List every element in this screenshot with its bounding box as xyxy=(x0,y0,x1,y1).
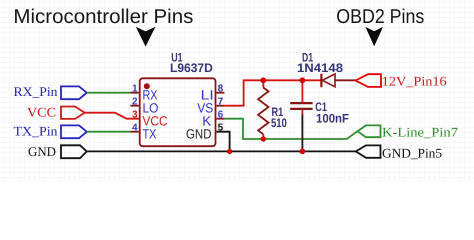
arrow marker left xyxy=(136,27,156,47)
svg-text:VCC: VCC xyxy=(27,104,56,119)
svg-text:100nF: 100nF xyxy=(316,112,349,126)
wire pin 6 to K line (green) xyxy=(224,119,357,139)
port GND_Pin5 xyxy=(356,145,443,160)
junction node pin5 GND xyxy=(227,149,232,154)
svg-text:510: 510 xyxy=(271,116,287,130)
port 12V_Pin16 xyxy=(356,74,448,89)
wire RX_Pin to pin 1 (green) xyxy=(87,92,131,94)
svg-text:Microcontroller Pins: Microcontroller Pins xyxy=(13,6,193,28)
pin 2 stub xyxy=(130,105,138,107)
svg-text:1N4148: 1N4148 xyxy=(297,61,343,75)
IC U1 L9637D xyxy=(140,78,216,146)
arrow marker right xyxy=(365,27,383,46)
svg-text:2: 2 xyxy=(132,96,138,107)
pin 8 stub xyxy=(216,92,224,94)
svg-text:OBD2 Pins: OBD2 Pins xyxy=(336,6,424,28)
pin 1 stub xyxy=(130,92,138,94)
pin 7 stub xyxy=(216,105,224,107)
svg-text:GND: GND xyxy=(28,144,56,159)
port VCC xyxy=(27,104,85,119)
capacitor C1 xyxy=(290,80,312,151)
svg-text:5: 5 xyxy=(218,122,224,133)
svg-text:7: 7 xyxy=(218,96,224,107)
svg-text:12V_Pin16: 12V_Pin16 xyxy=(382,74,447,89)
svg-text:8: 8 xyxy=(218,83,224,94)
resistor R1 xyxy=(258,80,268,139)
svg-text:3: 3 xyxy=(132,109,138,120)
wire pin 7 to 12V rail (red) xyxy=(224,80,320,105)
svg-text:RX_Pin: RX_Pin xyxy=(14,84,58,99)
svg-text:TX_Pin: TX_Pin xyxy=(14,123,58,138)
wire VCC to pin 3 (red) xyxy=(85,113,139,119)
wire GND bus (black) xyxy=(87,150,356,152)
svg-text:TX: TX xyxy=(143,126,157,141)
wire TX_Pin to pin 4 (green) xyxy=(87,131,131,133)
port RX_Pin xyxy=(14,84,87,99)
svg-text:GND_Pin5: GND_Pin5 xyxy=(382,145,442,160)
port TX_Pin xyxy=(14,123,87,138)
svg-text:1: 1 xyxy=(132,83,138,94)
diode D1 xyxy=(321,74,355,88)
port K-Line_Pin7 xyxy=(357,125,458,140)
svg-text:GND: GND xyxy=(186,126,212,141)
junction node R1 top xyxy=(260,77,266,83)
pin 6 stub xyxy=(216,118,224,120)
port GND left xyxy=(28,144,87,159)
junction node C1 bottom xyxy=(300,149,306,155)
svg-text:6: 6 xyxy=(218,109,224,120)
junction node R1 bottom xyxy=(261,136,266,141)
junction node C1 top xyxy=(300,77,306,83)
svg-text:L9637D: L9637D xyxy=(170,61,213,75)
pin 4 stub xyxy=(130,131,138,133)
svg-text:4: 4 xyxy=(132,122,138,133)
background grid xyxy=(0,0,474,180)
pin 5 wire (black) xyxy=(216,132,229,152)
svg-text:K-Line_Pin7: K-Line_Pin7 xyxy=(382,125,458,140)
